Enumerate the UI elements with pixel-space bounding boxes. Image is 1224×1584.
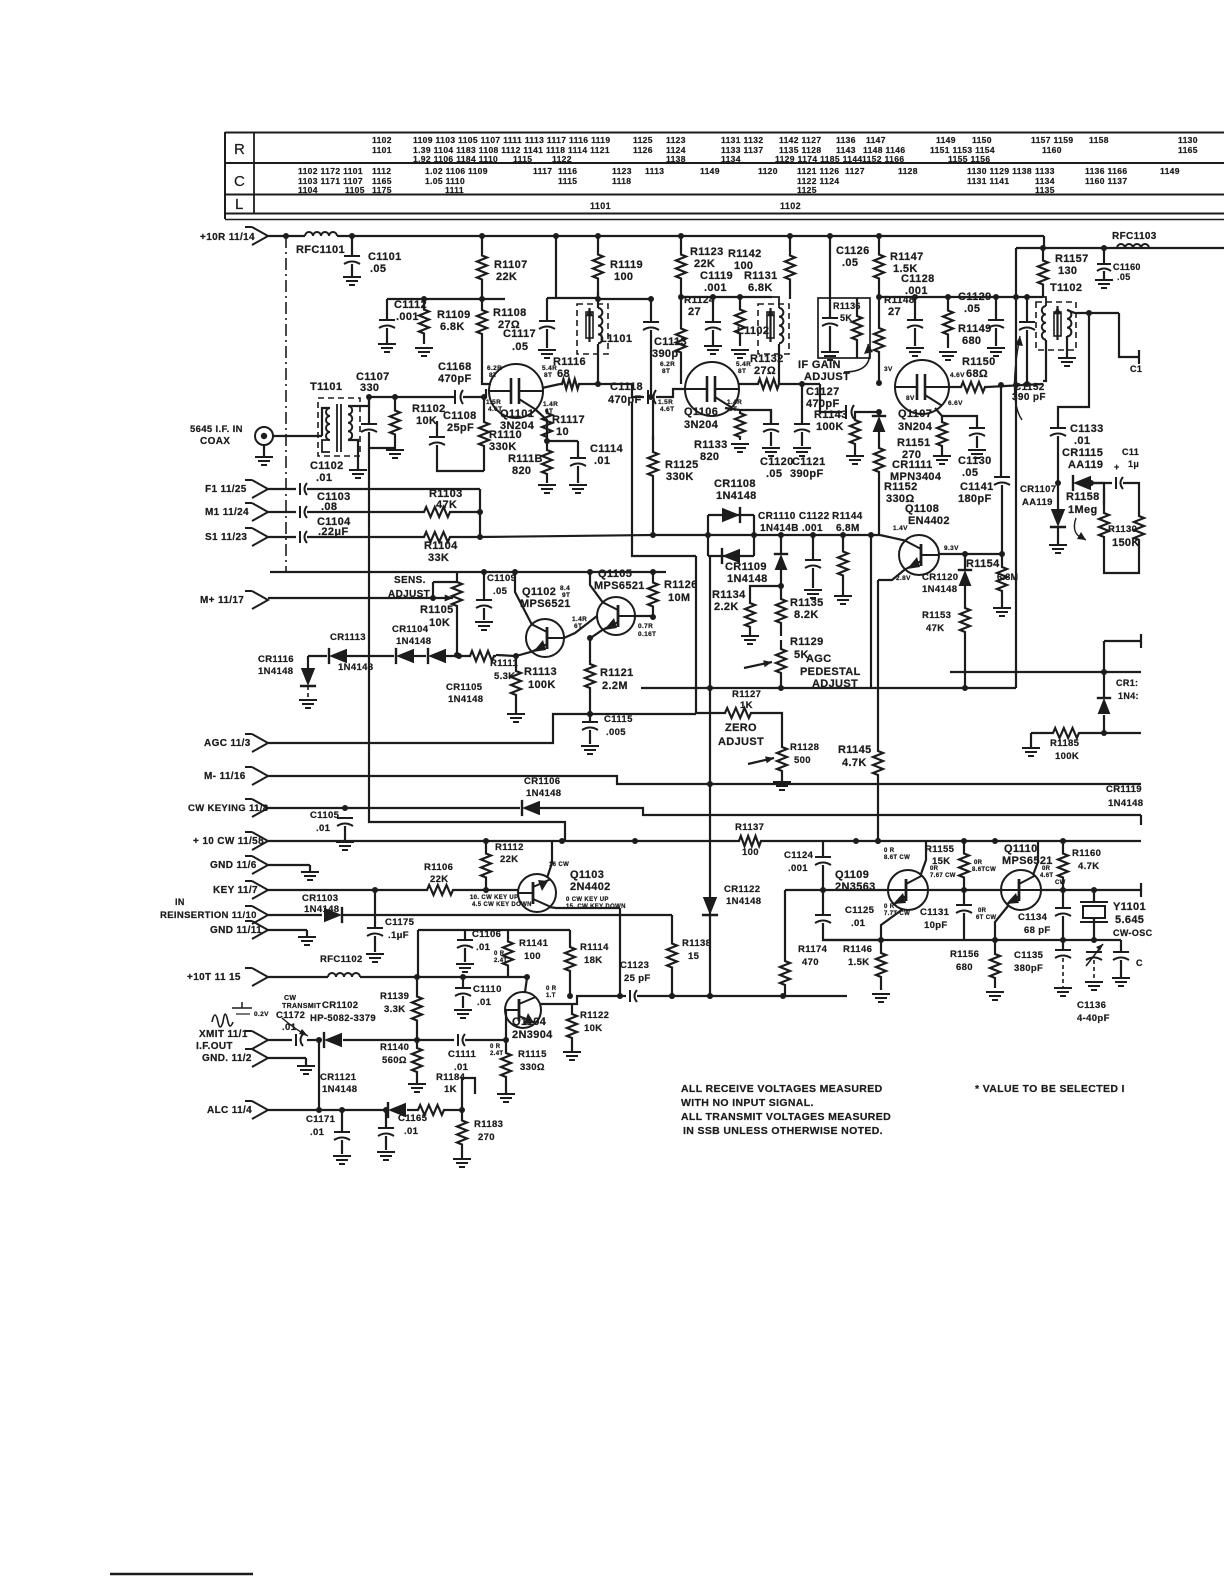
label R1145 — [838, 744, 872, 756]
resistor R1153 — [960, 600, 970, 640]
wiper arrow R1129 wiper — [744, 660, 772, 668]
resistor R1115 — [501, 1040, 511, 1090]
resistor R1148 — [874, 297, 884, 383]
page bottom mark — [110, 1573, 253, 1576]
label C1132 plus — [1114, 462, 1120, 472]
svg-text:C1123: C1123 — [620, 960, 649, 971]
svg-text:R1112: R1112 — [495, 842, 524, 853]
label R1111 — [490, 658, 519, 669]
svg-text:2N3904: 2N3904 — [512, 1029, 553, 1041]
svg-text:5.4R: 5.4R — [736, 361, 751, 368]
diode CR1120 — [958, 570, 972, 586]
svg-text:1.5R: 1.5R — [658, 399, 673, 406]
label R1104 — [424, 540, 458, 552]
svg-text:C1108: C1108 — [443, 410, 477, 422]
svg-text:EN4402: EN4402 — [908, 515, 950, 527]
inductor L1101 box — [577, 304, 608, 354]
svg-text:1138: 1138 — [666, 154, 686, 164]
label R1129 value — [794, 649, 809, 661]
wiper arrow L1101 arrow — [586, 308, 593, 342]
label Q1101 — [500, 408, 534, 420]
label Q1106 pin a2 — [662, 368, 670, 375]
label C1128 value — [905, 285, 928, 297]
svg-text:CR1116: CR1116 — [258, 654, 294, 665]
junction at (286,236) — [283, 233, 289, 239]
svg-text:1111: 1111 — [445, 185, 464, 195]
label C1120 value — [766, 468, 782, 480]
svg-text:M- 11/16: M- 11/16 — [204, 771, 246, 782]
wire C1117 top — [546, 298, 548, 321]
junction at (463,977) — [460, 974, 466, 980]
junction at (395,397) — [392, 394, 398, 400]
svg-text:R1154: R1154 — [966, 558, 1000, 570]
wire Q1108 coll line — [938, 553, 1002, 555]
svg-text:1130: 1130 — [1178, 135, 1198, 145]
label Q1105 — [598, 568, 632, 580]
diode CR1108 — [722, 507, 740, 523]
svg-text:6.2R: 6.2R — [660, 361, 675, 368]
label CR1117 type — [1118, 691, 1139, 701]
svg-text:8.2K: 8.2K — [794, 609, 819, 621]
capacitor C1125 — [815, 915, 831, 923]
label R1126 value — [668, 592, 690, 604]
label Q1107 pin 66 — [948, 400, 963, 407]
wire C1134 bot — [1062, 916, 1064, 940]
label table entry 1123 r143 — [666, 135, 686, 145]
label Q1109 p5 — [884, 904, 895, 910]
svg-text:CR1108: CR1108 — [714, 478, 756, 490]
label table entry 1130 r174 — [967, 166, 1032, 176]
wire S1 line a — [268, 536, 296, 538]
label C1103 value — [321, 501, 337, 513]
svg-text:1130 1129 1138: 1130 1129 1138 — [967, 166, 1032, 176]
label Q1105 pin3 — [572, 616, 587, 623]
svg-text:1N4148: 1N4148 — [727, 573, 768, 585]
label C1126 value — [842, 257, 858, 269]
resistor R1108 — [477, 299, 487, 345]
wire y297 node3 — [879, 296, 1043, 298]
label R1127 value — [740, 700, 753, 711]
svg-text:C1110: C1110 — [473, 984, 502, 995]
svg-text:+10T 11 15: +10T 11 15 — [187, 972, 241, 983]
ground C1165 — [377, 1152, 395, 1160]
label Q1101 pin a2 — [489, 372, 497, 379]
svg-text:M1 11/24: M1 11/24 — [205, 507, 249, 518]
crystal Y1101 — [1080, 902, 1108, 922]
svg-text:CR1119: CR1119 — [1106, 784, 1142, 795]
svg-text:2N3563: 2N3563 — [835, 881, 876, 893]
svg-text:.1μF: .1μF — [388, 930, 409, 941]
label C1130 value — [962, 467, 978, 479]
svg-text:100K: 100K — [528, 679, 556, 691]
label table entry 1109 r174 — [468, 166, 488, 176]
label CR1103 — [302, 893, 338, 904]
svg-text:RFC1102: RFC1102 — [320, 954, 363, 965]
inductor L1101 winding — [598, 308, 602, 343]
label R1155 — [925, 844, 955, 855]
wire Q1105 emitter — [590, 630, 603, 638]
wire R1108 to gate — [482, 345, 491, 384]
wire C1124 bot — [822, 865, 824, 890]
junction at (881,940) — [878, 937, 884, 943]
label Q1108 — [905, 503, 939, 515]
ground 11/6 — [301, 872, 319, 880]
svg-text:2.2M: 2.2M — [602, 680, 628, 692]
ground R1149 — [939, 352, 957, 360]
svg-text:GND 11/6: GND 11/6 — [210, 860, 257, 871]
diode CR1122 — [702, 897, 718, 915]
junction at (783,996) — [780, 993, 786, 999]
label table L 1101 — [590, 201, 611, 211]
label Q1101 pin b2 — [544, 372, 552, 379]
junction at (843,535) — [840, 532, 846, 538]
label CR1113 — [330, 632, 366, 643]
junction at (878,841) — [875, 838, 881, 844]
label R1133 — [694, 439, 728, 451]
svg-text:22K: 22K — [694, 258, 715, 270]
svg-text:R1119: R1119 — [610, 259, 643, 271]
wire R1143 gnd stem — [854, 452, 856, 456]
svg-text:27Ω: 27Ω — [754, 365, 776, 377]
junction at (547,441) — [544, 438, 550, 444]
label note line3 — [681, 1111, 891, 1123]
ground C1112 — [378, 344, 396, 352]
svg-text:C1118: C1118 — [610, 381, 643, 393]
wire Q1101 gate line — [369, 396, 455, 398]
svg-text:F1 11/25: F1 11/25 — [205, 484, 247, 495]
label CR1111 type — [890, 471, 942, 483]
label R1142 value — [734, 260, 753, 272]
label CR1106 type — [526, 788, 561, 799]
junction at (996,297) — [993, 294, 999, 300]
ground C1114 — [569, 485, 587, 493]
wire CR1117 bot — [1103, 715, 1105, 733]
svg-text:CW KEYING 11/8: CW KEYING 11/8 — [188, 803, 268, 814]
wire L1101 bottom — [597, 344, 599, 384]
label R1154 value — [997, 572, 1018, 582]
wire x710 vertical mid — [709, 555, 711, 996]
wire L1101 top — [597, 292, 599, 308]
wire R1140 gnd stem — [416, 1080, 418, 1084]
wire C1125 top — [822, 890, 824, 915]
svg-text:R1133: R1133 — [694, 439, 728, 451]
label C1108 — [443, 410, 477, 422]
svg-text:R1134: R1134 — [712, 589, 746, 601]
label table entry 1131 r143 — [721, 135, 763, 145]
label AGC 11/3 — [204, 738, 251, 749]
label R1133 value — [700, 451, 719, 463]
wire C1137 top — [1120, 940, 1122, 952]
junction at (965,688) — [962, 685, 968, 691]
label table entry 1143 r153 — [836, 145, 856, 155]
wire x871 down — [870, 535, 872, 688]
label table L 1102 — [780, 201, 801, 211]
label R1118 — [508, 453, 543, 465]
label AGC — [806, 653, 832, 665]
connector AGC 11/3 — [245, 734, 268, 752]
label R1103 — [429, 488, 463, 500]
wire base drop — [784, 890, 786, 950]
wire C1131 bot — [963, 913, 965, 940]
capacitor C1118 — [648, 390, 656, 404]
junction at (856,841) — [853, 838, 859, 844]
wire CR1111 lead — [878, 412, 880, 416]
svg-text:1136: 1136 — [836, 135, 856, 145]
label R1132 value — [754, 365, 776, 377]
label table entry 1.39 r153 — [413, 145, 610, 155]
wire gnd 11/6 stem — [309, 865, 311, 872]
label Q1103 type — [570, 881, 611, 893]
svg-text:Q1102: Q1102 — [522, 586, 556, 598]
wiper arrow R1128 wiper — [748, 756, 774, 764]
svg-text:R1130: R1130 — [1108, 524, 1137, 535]
label Y1101 — [1113, 901, 1146, 913]
label R1183 — [474, 1119, 503, 1130]
label Q1109 p3 — [930, 866, 939, 872]
svg-text:R1158: R1158 — [1066, 491, 1100, 503]
transistor Q1107 — [895, 360, 949, 414]
inductor T1101 secondary — [348, 406, 352, 440]
wire Q1109 coll — [921, 842, 926, 874]
wave arrow — [282, 1018, 308, 1036]
label R1107 value — [496, 271, 517, 283]
wire top bus C1106 — [418, 929, 570, 931]
label C1106 — [472, 929, 501, 940]
resistor R1106 — [425, 885, 455, 895]
junction at (1043,248) — [1040, 245, 1046, 251]
wire R1158 from diode — [1091, 483, 1104, 505]
wire CR1110 top — [780, 535, 782, 553]
svg-text:6.6V: 6.6V — [948, 400, 963, 407]
svg-text:R1143: R1143 — [814, 409, 848, 421]
ground R1144 — [834, 596, 852, 604]
wire R bottom loop — [1104, 545, 1139, 573]
svg-text:T1102: T1102 — [1050, 282, 1082, 294]
svg-text:TRANSMIT: TRANSMIT — [282, 1003, 321, 1010]
wire R1185 to node — [1081, 732, 1141, 734]
capacitor C1111 — [458, 1034, 465, 1046]
wire C1110 top — [462, 977, 464, 988]
label CR1102 — [322, 1000, 358, 1011]
svg-text:100: 100 — [614, 271, 633, 283]
svg-text:R1113: R1113 — [524, 666, 557, 678]
label Q1104 p1 — [494, 951, 505, 957]
label R1185 — [1050, 738, 1080, 749]
wire T1102 sec top — [1067, 310, 1119, 313]
label C1135 value — [1014, 963, 1043, 974]
label C1118 value — [608, 394, 642, 406]
connector S1 11/23 — [245, 528, 268, 546]
label C1105 value — [316, 823, 331, 834]
svg-text:47K: 47K — [436, 499, 457, 511]
resistor R1117 — [542, 409, 552, 441]
svg-text:.01: .01 — [476, 942, 491, 953]
junction at (710,996) — [707, 993, 713, 999]
wire C1128 top — [914, 297, 916, 320]
svg-text:C: C — [234, 173, 245, 190]
label R1135 — [790, 597, 824, 609]
label Q1103 t2 — [470, 895, 518, 901]
svg-text:C1165: C1165 — [398, 1113, 428, 1124]
label table entry 1165 r184 — [372, 176, 392, 186]
junction at (319,1110) — [316, 1107, 322, 1113]
svg-text:1N4:: 1N4: — [1118, 691, 1139, 701]
label R1108 value — [498, 319, 520, 331]
ground C1101 — [343, 277, 361, 285]
svg-text:1N4148: 1N4148 — [526, 788, 561, 799]
label R1104 value — [428, 552, 449, 564]
diode CR1107 — [1050, 509, 1066, 527]
wire x653 vertical upper — [652, 400, 654, 440]
wire C1165 lead — [385, 1110, 387, 1128]
connector GND 11/6 — [245, 856, 268, 874]
svg-text:R1111: R1111 — [490, 658, 519, 669]
wire C1171 bot — [341, 1140, 343, 1154]
label C1102 .01 label — [310, 460, 344, 472]
junction at (1094,940) — [1091, 937, 1097, 943]
svg-text:1136 1166: 1136 1166 — [1085, 166, 1127, 176]
resistor R1103 — [422, 507, 452, 517]
label table entry 1113 r174 — [645, 166, 664, 176]
svg-text:CR1120: CR1120 — [922, 572, 958, 583]
svg-text:C1114: C1114 — [590, 443, 623, 455]
svg-text:R1149: R1149 — [958, 323, 992, 335]
junction at (556,236) — [553, 233, 559, 239]
svg-text:GND 11/11: GND 11/11 — [210, 925, 262, 936]
resistor R1183 — [457, 1110, 467, 1155]
wire C1121 bot — [801, 432, 803, 446]
transformer T1101 box — [318, 398, 360, 456]
svg-text:R1115: R1115 — [518, 1049, 547, 1060]
svg-text:CR1107: CR1107 — [1020, 484, 1056, 495]
svg-text:C1101: C1101 — [368, 251, 402, 263]
svg-text:270: 270 — [902, 449, 921, 461]
junction at (681,297) — [678, 294, 684, 300]
label Q1106 — [684, 406, 718, 418]
junction at (635,841) — [632, 838, 638, 844]
svg-text:R1136: R1136 — [833, 301, 861, 311]
svg-text:ALL TRANSMIT VOLTAGES MEASURED: ALL TRANSMIT VOLTAGES MEASURED — [681, 1111, 891, 1123]
svg-text:820: 820 — [700, 451, 719, 463]
junction at (484,572) — [481, 569, 487, 575]
resistor R1146 — [876, 940, 886, 990]
svg-text:100K: 100K — [1055, 751, 1079, 762]
svg-text:1134: 1134 — [721, 154, 741, 164]
svg-text:C1141: C1141 — [960, 481, 994, 493]
wire y641 end tick — [1140, 634, 1142, 648]
label C1160 — [1113, 262, 1141, 272]
svg-text:T1101: T1101 — [310, 381, 342, 393]
svg-text:4.7K: 4.7K — [1078, 861, 1099, 872]
wire R1156 top — [994, 940, 996, 944]
svg-text:1.4V: 1.4V — [893, 525, 908, 532]
label R1115 — [518, 1049, 547, 1060]
svg-text:R1160: R1160 — [1072, 848, 1101, 859]
label Q1105 pin4 — [574, 623, 582, 630]
wire C1114 top — [577, 441, 579, 458]
svg-text:IF GAIN: IF GAIN — [798, 359, 841, 371]
wire C1165 bot — [385, 1136, 387, 1150]
capacitor C1114 — [570, 458, 586, 466]
junction at (598,299) — [595, 296, 601, 302]
wire drain lead — [949, 386, 959, 388]
svg-text:R1109: R1109 — [437, 309, 471, 321]
label CR1104 type — [396, 636, 431, 647]
svg-text:1118: 1118 — [612, 176, 631, 186]
resistor R1141 — [503, 930, 513, 977]
C1152 arrow — [1014, 336, 1023, 420]
svg-text:REINSERTION 11/10: REINSERTION 11/10 — [160, 910, 257, 921]
label C1134 value — [1024, 925, 1051, 936]
label Q1106 type — [684, 419, 719, 431]
label table entry 1128 r174 — [898, 166, 918, 176]
svg-text:6.2R: 6.2R — [487, 365, 502, 372]
svg-text:CR1115: CR1115 — [1062, 447, 1103, 459]
wire coax to T1101 — [273, 435, 322, 437]
capacitor C1106 — [457, 940, 473, 948]
ground C1126 — [821, 352, 839, 360]
junction at (1058,483) — [1055, 480, 1061, 486]
junction at (590,638) — [587, 635, 593, 641]
svg-text:C1131: C1131 — [920, 907, 950, 918]
resistor R1127 — [720, 708, 756, 718]
wire y890 end tick — [1140, 883, 1142, 897]
svg-text:1160 1137: 1160 1137 — [1085, 176, 1127, 186]
svg-text:ADJUST: ADJUST — [804, 371, 850, 383]
transistor Q1108 — [899, 535, 939, 575]
label CR1107 type — [1022, 497, 1053, 508]
label C1132 partial — [1122, 447, 1139, 457]
svg-text:8T: 8T — [544, 372, 552, 379]
label R1131 value — [748, 282, 773, 294]
wire Q1106 drain — [739, 383, 756, 385]
svg-text:390pF: 390pF — [790, 468, 824, 480]
wire L1102 bottom — [778, 344, 780, 384]
R1158 arrow — [1074, 518, 1086, 540]
resistor R1139 — [412, 977, 422, 1040]
wire chain seg1 — [347, 655, 394, 657]
wire R1115 gnd stem — [505, 1090, 507, 1094]
junction at (345,808) — [342, 805, 348, 811]
svg-text:.05: .05 — [842, 257, 858, 269]
resistor R1128 — [777, 740, 787, 778]
label Q1101 pin c — [486, 399, 501, 406]
capacitor C1121 — [794, 424, 810, 432]
label R1126 — [664, 579, 698, 591]
label Q1101 pin b — [542, 365, 557, 372]
wire Q1108 emitter — [878, 569, 905, 580]
label R1141 value — [524, 951, 541, 962]
label R1148 — [884, 295, 915, 306]
junction at (480,512) — [477, 509, 483, 515]
label Q1102 — [522, 586, 556, 598]
capacitor C1137 — [1113, 952, 1129, 960]
svg-text:330K: 330K — [489, 441, 517, 453]
svg-text:C11: C11 — [1122, 447, 1139, 457]
capacitor C1103 — [300, 506, 307, 518]
svg-text:8.6TCW: 8.6TCW — [972, 867, 996, 873]
ground R1133 — [731, 444, 749, 452]
ground R1140 — [408, 1084, 426, 1092]
svg-text:RFC1101: RFC1101 — [296, 244, 345, 256]
label C1132 val — [1128, 459, 1139, 469]
svg-text:1K: 1K — [444, 1084, 457, 1095]
svg-text:5645 I.F. IN: 5645 I.F. IN — [190, 424, 243, 435]
wire R1134 gnd stem — [749, 632, 751, 636]
junction at (417,1040) — [414, 1037, 420, 1043]
svg-text:.05: .05 — [370, 263, 386, 275]
ground R1185 — [1022, 748, 1040, 756]
